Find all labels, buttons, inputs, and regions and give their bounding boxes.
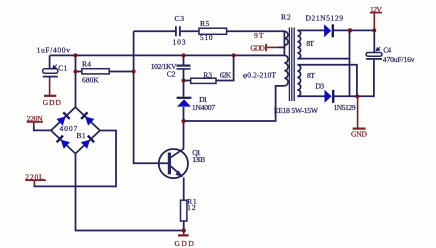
svg-text:GDD: GDD (43, 98, 62, 107)
svg-text:R2: R2 (281, 13, 291, 22)
svg-text:R4: R4 (82, 60, 91, 69)
svg-text:12V: 12V (370, 5, 382, 14)
svg-text:1N4007: 1N4007 (192, 103, 215, 112)
svg-text:R3: R3 (203, 71, 212, 80)
svg-text:EE18 5W-15W: EE18 5W-15W (274, 106, 319, 115)
svg-text:φ0.2-210T: φ0.2-210T (243, 71, 277, 80)
svg-text:R5: R5 (200, 19, 210, 28)
svg-text:680K: 680K (82, 75, 99, 84)
svg-text:D21N5129: D21N5129 (306, 14, 344, 23)
svg-text:GDD: GDD (175, 239, 195, 248)
svg-text:1uF/400v: 1uF/400v (37, 46, 71, 55)
svg-text:9T: 9T (254, 31, 264, 40)
svg-text:C3: C3 (175, 14, 185, 23)
svg-text:62K: 62K (220, 71, 232, 80)
svg-text:B1: B1 (76, 131, 86, 140)
svg-text:470uF/16v: 470uF/16v (383, 55, 415, 64)
svg-text:8T: 8T (307, 71, 315, 80)
svg-text:1N5129: 1N5129 (334, 103, 356, 112)
svg-text:D3: D3 (315, 82, 324, 91)
svg-text:C2: C2 (167, 70, 176, 79)
svg-text:4007: 4007 (60, 124, 78, 133)
svg-text:C1: C1 (58, 63, 67, 72)
svg-text:1303: 1303 (192, 155, 205, 164)
svg-text:12: 12 (187, 203, 196, 212)
svg-text:8T: 8T (306, 39, 314, 48)
svg-text:GDD: GDD (250, 44, 265, 53)
svg-text:220L: 220L (25, 172, 44, 181)
svg-text:510: 510 (200, 33, 213, 42)
svg-text:C4: C4 (383, 46, 391, 55)
svg-text:GND: GND (351, 130, 368, 139)
svg-text:220N: 220N (27, 114, 44, 123)
svg-text:103: 103 (173, 38, 186, 47)
